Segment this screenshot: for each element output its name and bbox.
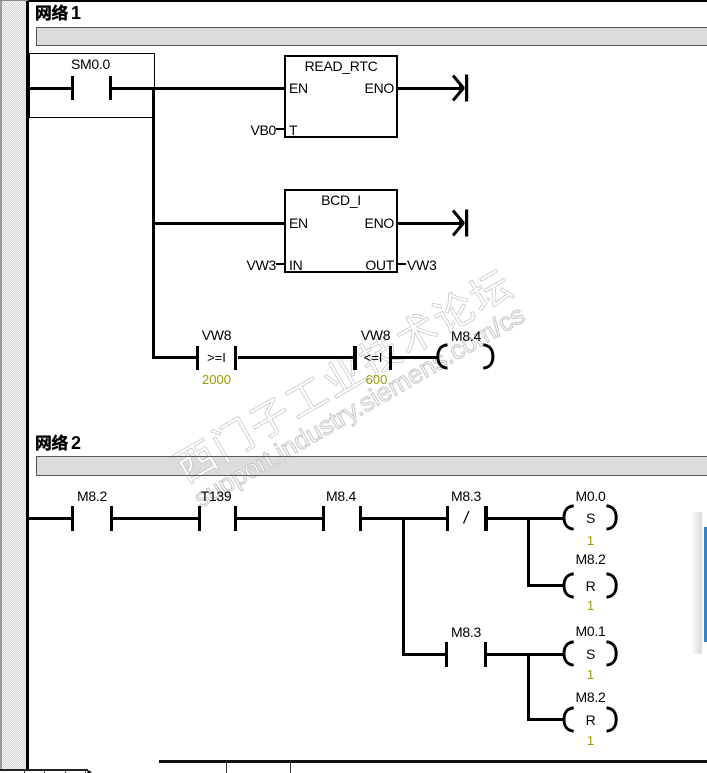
- coil M8.4: [440, 328, 492, 344]
- contact VW8 <=I: [350, 327, 401, 343]
- wire rail to SM0.0: [29, 87, 71, 90]
- network 2 title: [35, 430, 79, 454]
- arrow rung-open 1: [448, 70, 474, 106]
- box BCD_I: [284, 189, 398, 273]
- right popup blue edge: [704, 527, 707, 642]
- coil R M8.2 (2): [564, 689, 617, 705]
- contact SM0.0 label: [60, 56, 121, 72]
- arrow rung-open 2: [448, 205, 474, 241]
- IN input stub: [276, 263, 284, 266]
- negation slash: [460, 505, 476, 529]
- contact M8.3 (2): [440, 624, 492, 640]
- T input stub: [276, 128, 284, 131]
- contact M8.4: [315, 488, 367, 504]
- network 1 comment bar: [36, 27, 707, 46]
- branch vertical to R coil M8.2 (2): [527, 653, 530, 722]
- left gutter stipple strip: [0, 0, 26, 769]
- left power rail: [26, 0, 29, 770]
- wire M8.2 to T139: [113, 517, 198, 520]
- contact SM0.0 bars: [71, 76, 74, 101]
- network 1 title: [35, 0, 79, 24]
- gutter top hairline: [0, 0, 28, 1]
- wire M8.3 to coil S M0.0: [488, 517, 564, 520]
- R coil rung 1 stub: [530, 584, 564, 587]
- bottom-left scroll cells: [0, 769, 88, 771]
- wire between comparison contacts: [238, 356, 354, 359]
- junction vertical line: [152, 87, 155, 359]
- wire ENO out: [398, 87, 462, 90]
- wire T139 to M8.4: [237, 517, 322, 520]
- CJK glyph path definitions (not drawn): [0, 0, 1, 1]
- wire M8.4 to M8.3: [362, 517, 446, 520]
- VW3 operand in: [240, 257, 276, 273]
- value 600: [351, 372, 402, 387]
- coil R M8.2: [564, 551, 617, 567]
- branch junction vertical to lower rung: [402, 517, 405, 656]
- contact M8.3 negated: [440, 488, 492, 504]
- wire to coil M8.4: [392, 356, 437, 359]
- VB0 operand: [240, 122, 276, 138]
- branch vertical to R coil M8.2: [527, 517, 530, 588]
- value 2000: [191, 372, 242, 387]
- wire SM0.0 to READ_RTC EN: [112, 87, 284, 90]
- top border line: [28, 0, 707, 2]
- right popup shadow: [691, 512, 702, 654]
- contact VW8 >=I: [191, 327, 242, 343]
- net2 wire rail to M8.2: [29, 517, 71, 520]
- wire M8.3 to coil S M0.1: [487, 653, 563, 656]
- network 2 comment bar: [36, 456, 707, 476]
- contact T139: [190, 488, 242, 504]
- comparison rung wire from junction: [152, 356, 196, 359]
- box READ_RTC: [284, 55, 398, 138]
- wire junction to BCD_I EN: [152, 222, 285, 225]
- coil S M0.1: [564, 623, 617, 639]
- wire BCD_I ENO out: [398, 222, 462, 225]
- selection rect around SM0.0 cell: [29, 53, 155, 118]
- R coil rung 2 stub: [530, 718, 564, 721]
- VW3 operand out: [407, 257, 436, 273]
- network 2 comment bar border: [36, 456, 707, 476]
- lower sub-rung wire from junction: [402, 653, 447, 656]
- bottom-left scroll arrow: [87, 770, 93, 773]
- coil S M0.0: [564, 488, 617, 504]
- OUT output stub: [398, 263, 406, 266]
- bottom tab strip top line: [159, 760, 707, 763]
- tab dividers: [226, 763, 228, 773]
- contact M8.2: [66, 488, 118, 504]
- network 1 comment bar border: [36, 27, 707, 46]
